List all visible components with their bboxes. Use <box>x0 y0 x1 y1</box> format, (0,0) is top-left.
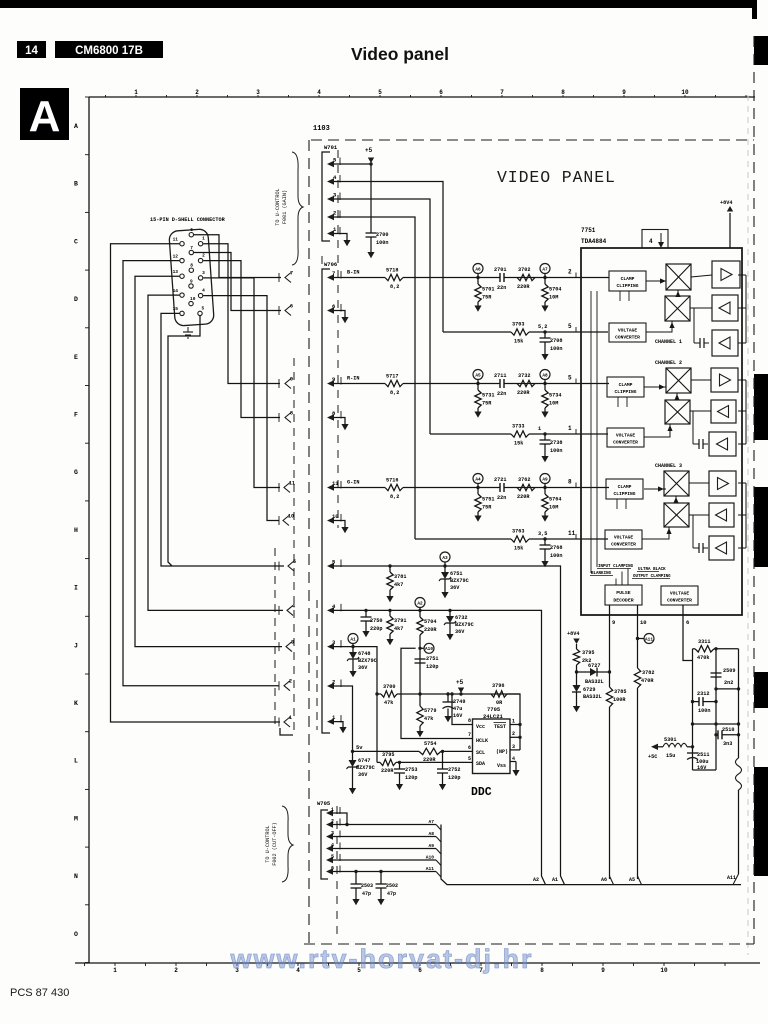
cable wire pin4 to hook10 <box>203 296 279 521</box>
wire W701 pin5 to +5 node <box>334 162 373 165</box>
svg-text:W701: W701 <box>324 144 338 151</box>
svg-text:H: H <box>74 527 78 534</box>
label CHANNEL 3 <box>655 463 682 469</box>
svg-text:36V: 36V <box>455 629 465 635</box>
svg-text:A6: A6 <box>475 267 481 272</box>
svg-text:Video panel: Video panel <box>351 44 449 64</box>
svg-text:75R: 75R <box>482 295 492 301</box>
power +8V4 top right <box>720 200 742 248</box>
svg-text:2738: 2738 <box>550 440 562 446</box>
svg-text:11: 11 <box>568 530 576 537</box>
svg-text:10M: 10M <box>549 401 558 407</box>
capacitor 2700 100n <box>366 232 389 252</box>
svg-text:A11: A11 <box>727 875 736 881</box>
svg-text:3795: 3795 <box>382 752 394 758</box>
24LC21 Vss ground <box>512 762 519 777</box>
svg-text:CLIPPING: CLIPPING <box>613 491 635 497</box>
svg-text:9: 9 <box>601 967 605 974</box>
board outline dashed bottom <box>304 943 754 945</box>
svg-text:6: 6 <box>332 303 335 310</box>
svg-text:75R: 75R <box>482 401 492 407</box>
svg-text:3: 3 <box>256 89 260 96</box>
svg-text:BAS32L: BAS32L <box>585 679 604 685</box>
resistor 3782 470R <box>634 668 654 688</box>
model box CM6800 17B <box>55 41 163 58</box>
svg-text:7: 7 <box>500 89 504 96</box>
wire W701 pin2 to clamp ch3 <box>334 217 415 539</box>
svg-text:2: 2 <box>332 679 335 686</box>
svg-text:CLIPPING: CLIPPING <box>614 389 636 395</box>
svg-text:A3: A3 <box>442 556 448 561</box>
channel R input row (7751 pin5) <box>334 370 609 418</box>
cable wire pin3 to hook11 <box>203 278 280 488</box>
svg-text:15-PIN D-SHELL CONNECTOR: 15-PIN D-SHELL CONNECTOR <box>150 217 226 223</box>
connector W701 pins 5-1 arrows <box>327 157 340 237</box>
svg-text:7: 7 <box>332 270 335 277</box>
svg-text:5: 5 <box>331 854 334 860</box>
svg-text:A11: A11 <box>645 637 653 642</box>
svg-text:TO U-CONTROL: TO U-CONTROL <box>275 188 281 225</box>
connector dashed line c <box>321 256 323 535</box>
svg-text:6748: 6748 <box>358 651 370 657</box>
svg-text:2509: 2509 <box>723 668 735 674</box>
svg-text:5717: 5717 <box>386 374 398 380</box>
svg-text:3795: 3795 <box>582 650 594 656</box>
svg-text:HCLK: HCLK <box>476 738 488 744</box>
svg-text:1: 1 <box>331 807 334 813</box>
svg-text:O: O <box>74 931 78 938</box>
svg-text:22n: 22n <box>497 391 506 397</box>
svg-text:5704: 5704 <box>549 287 561 293</box>
svg-text:A: A <box>74 123 78 130</box>
svg-text:M: M <box>74 815 78 822</box>
right margin black block 2 <box>754 374 768 440</box>
svg-text:220R: 220R <box>517 390 530 396</box>
svg-text:A9: A9 <box>542 477 548 482</box>
svg-text:8: 8 <box>190 263 193 269</box>
svg-text:5: 5 <box>202 305 205 311</box>
svg-text:120p: 120p <box>405 775 417 781</box>
svg-text:220p: 220p <box>370 626 382 632</box>
svg-text:2: 2 <box>289 679 292 685</box>
svg-text:2700: 2700 <box>376 232 388 238</box>
svg-text:8,2: 8,2 <box>390 284 399 290</box>
svg-text:CLAMP: CLAMP <box>618 484 632 490</box>
svg-text:CONVERTER: CONVERTER <box>667 598 692 604</box>
capacitor 2502 47p <box>376 870 399 905</box>
svg-text:11: 11 <box>173 237 179 243</box>
connector W701 label <box>324 144 338 151</box>
clamp line ch3 resistor 3763 <box>415 529 608 568</box>
svg-text:100n: 100n <box>550 346 562 352</box>
svg-text:CLAMP: CLAMP <box>619 382 633 388</box>
svg-text:9: 9 <box>190 278 193 284</box>
wire 3795 to pin5 SDA <box>396 761 467 764</box>
svg-text:3702: 3702 <box>518 267 530 273</box>
svg-text:CHANNEL 1: CHANNEL 1 <box>655 339 682 345</box>
svg-text:5: 5 <box>568 375 572 382</box>
voltage converter blocks x4 <box>605 323 698 605</box>
svg-text:3703: 3703 <box>512 322 524 328</box>
svg-text:3785: 3785 <box>614 689 626 695</box>
svg-text:5754: 5754 <box>424 741 436 747</box>
svg-text:CLAMP: CLAMP <box>621 276 635 282</box>
svg-text:8: 8 <box>561 89 565 96</box>
svg-text:7: 7 <box>468 732 471 738</box>
svg-text:W705: W705 <box>317 800 331 807</box>
svg-text:3: 3 <box>331 831 334 837</box>
svg-text:1: 1 <box>289 715 292 721</box>
svg-text:5: 5 <box>568 323 572 330</box>
junction 5v <box>351 750 354 753</box>
svg-text:4: 4 <box>202 288 205 294</box>
resistor 3795 220R <box>377 752 396 774</box>
svg-text:120p: 120p <box>426 664 438 670</box>
svg-text:3,5: 3,5 <box>538 531 547 537</box>
svg-text:120p: 120p <box>448 775 460 781</box>
svg-text:15k: 15k <box>514 441 523 447</box>
svg-text:9: 9 <box>622 89 626 96</box>
right margin black block 4 <box>754 672 768 708</box>
capacitor 2511 100u 16V <box>687 752 709 771</box>
wire 5754 to pin6 SCL <box>441 750 467 753</box>
wire tap 724 <box>691 722 740 725</box>
node A3 <box>440 552 450 568</box>
multiplier X blocks x6 <box>664 264 691 527</box>
page number box 14 <box>17 41 46 58</box>
svg-text:TDA4884: TDA4884 <box>581 238 607 245</box>
svg-text:A11: A11 <box>426 866 435 872</box>
svg-text:A1: A1 <box>350 637 356 642</box>
amplifier triangle blocks x9 <box>709 261 740 560</box>
zener 6748 <box>347 647 377 678</box>
svg-text:2: 2 <box>202 253 205 259</box>
diode 6729 BAS32L <box>572 672 602 712</box>
svg-text:22n: 22n <box>497 495 506 501</box>
pulse decoder block <box>605 585 642 605</box>
svg-text:B: B <box>74 181 78 188</box>
svg-text:2749: 2749 <box>453 699 465 705</box>
cable wire pin13 to hook3 <box>135 276 282 646</box>
svg-text:2: 2 <box>195 89 199 96</box>
node A2 <box>415 598 425 613</box>
svg-text:220R: 220R <box>517 494 530 500</box>
svg-text:K: K <box>74 700 78 707</box>
svg-text:+5: +5 <box>365 147 373 154</box>
capacitor 2751 120p <box>415 656 439 670</box>
svg-text:1: 1 <box>134 89 138 96</box>
svg-text:4: 4 <box>331 843 334 849</box>
svg-text:11: 11 <box>332 480 339 487</box>
svg-text:7705: 7705 <box>487 706 501 713</box>
capacitor 2750 220p <box>361 609 383 638</box>
svg-text:1: 1 <box>512 719 515 725</box>
capacitor 2312 100n <box>691 691 718 714</box>
svg-text:D: D <box>74 296 78 303</box>
cable wire pin15 to hook5 <box>161 313 284 566</box>
right margin black block 3 <box>754 487 768 567</box>
power +8V4 lower <box>567 631 580 649</box>
page title Video panel <box>351 44 449 64</box>
svg-text:PULSE: PULSE <box>616 590 631 596</box>
svg-text:CONVERTER: CONVERTER <box>615 335 640 341</box>
svg-text:BZX79C: BZX79C <box>358 658 377 664</box>
D-shell connector body <box>169 229 215 326</box>
svg-text:B-IN: B-IN <box>347 270 359 276</box>
svg-text:W706: W706 <box>324 261 337 268</box>
cable wire pin14 to hook4 <box>148 295 283 610</box>
svg-text:2: 2 <box>568 269 572 276</box>
svg-text:15k: 15k <box>514 546 523 552</box>
capacitor 2503 47p <box>351 870 374 905</box>
svg-text:A1: A1 <box>552 877 558 883</box>
svg-text:6: 6 <box>439 89 443 96</box>
clamp line ch2 resistor 3733 <box>430 424 608 463</box>
svg-text:47p: 47p <box>362 891 371 897</box>
bus labels A2 A1 A6 A5 A11 <box>533 875 736 883</box>
svg-text:DECODER: DECODER <box>613 598 633 604</box>
svg-text:47u: 47u <box>453 706 462 712</box>
svg-text:3311: 3311 <box>698 639 710 645</box>
svg-text:2701: 2701 <box>494 267 506 273</box>
svg-text:10: 10 <box>640 619 647 626</box>
capacitor 2749 47u 16V <box>443 692 466 722</box>
svg-text:VOLTAGE: VOLTAGE <box>618 328 638 334</box>
watermark www.rtv-horvat-dj.hr <box>229 944 533 974</box>
svg-text:47k: 47k <box>384 700 393 706</box>
svg-text:F002 (CUT-OFF): F002 (CUT-OFF) <box>272 822 278 866</box>
wire 3796 to TEST pins <box>507 694 522 750</box>
svg-text:BZX79C: BZX79C <box>455 622 474 628</box>
svg-text:3733: 3733 <box>512 424 524 430</box>
svg-text:6: 6 <box>331 866 334 872</box>
svg-text:1103: 1103 <box>313 125 330 133</box>
svg-text:12: 12 <box>173 253 179 259</box>
svg-text:3791: 3791 <box>394 618 406 624</box>
board ref 1103 <box>313 125 330 133</box>
svg-text:6: 6 <box>190 227 193 233</box>
svg-text:3n3: 3n3 <box>723 741 732 747</box>
svg-text:Vcc: Vcc <box>476 724 485 730</box>
svg-text:5731: 5731 <box>482 393 494 399</box>
svg-text:CM6800 17B: CM6800 17B <box>75 45 143 57</box>
svg-text:CONVERTER: CONVERTER <box>613 440 638 446</box>
zener 6747 <box>347 758 375 794</box>
svg-text:A8: A8 <box>542 373 548 378</box>
svg-text:2708: 2708 <box>550 338 562 344</box>
svg-text:F: F <box>74 412 78 419</box>
svg-text:5: 5 <box>378 89 382 96</box>
svg-text:100R: 100R <box>613 697 626 703</box>
cable side hooks with ticks <box>279 271 296 728</box>
label 5v <box>356 744 363 751</box>
svg-text:8: 8 <box>290 411 293 417</box>
drawing border frame with rulers <box>74 89 760 974</box>
board outline dashed top <box>311 139 754 141</box>
wire tap 688 <box>716 687 740 690</box>
svg-text:2753: 2753 <box>405 767 417 773</box>
svg-text:3: 3 <box>291 640 294 646</box>
svg-text:5301: 5301 <box>664 737 676 743</box>
svg-text:2711: 2711 <box>494 373 506 379</box>
svg-text:G-IN: G-IN <box>347 480 359 486</box>
svg-text:F001 (GAIN): F001 (GAIN) <box>282 190 288 224</box>
connector dashed line a <box>274 548 276 730</box>
svg-text:SDA: SDA <box>476 761 485 767</box>
resistor 3795 2k2 <box>573 649 594 672</box>
svg-text:6751: 6751 <box>450 571 462 577</box>
svg-text:E: E <box>74 354 78 361</box>
A11 output line with squiggle <box>733 649 742 885</box>
svg-text:3763: 3763 <box>512 529 524 535</box>
connector W706 pin arrows <box>327 270 341 725</box>
svg-text:8: 8 <box>540 967 544 974</box>
connector W705 label <box>317 800 331 807</box>
label 15-PIN D-SHELL CONNECTOR <box>150 217 226 223</box>
svg-text:6747: 6747 <box>358 758 370 764</box>
cable wire pin5 join <box>168 316 200 566</box>
wire 5v to SCL <box>353 750 420 752</box>
labels input clamping / blanking / ultra black / output clamping <box>590 565 671 585</box>
svg-text:A7: A7 <box>542 267 548 272</box>
svg-text:CLIPPING: CLIPPING <box>616 283 638 289</box>
svg-text:A10: A10 <box>426 855 435 861</box>
cable wire pin1 to hook9 <box>203 244 280 384</box>
svg-text:15: 15 <box>173 306 179 312</box>
svg-text:I: I <box>74 585 78 592</box>
svg-text:10: 10 <box>660 967 668 974</box>
connector W705 bracket <box>321 810 328 879</box>
svg-text:220R: 220R <box>424 627 437 633</box>
svg-text:75R: 75R <box>482 505 492 511</box>
svg-text:2: 2 <box>331 819 334 825</box>
svg-text:3762: 3762 <box>518 477 530 483</box>
svg-text:10: 10 <box>332 513 339 520</box>
W706 pin2 row wire <box>334 686 353 758</box>
svg-text:CHANNEL 2: CHANNEL 2 <box>655 360 682 366</box>
board outline dashed left <box>308 140 310 944</box>
svg-text:2: 2 <box>174 967 178 974</box>
svg-text:2312: 2312 <box>697 691 709 697</box>
svg-text:5734: 5734 <box>549 393 561 399</box>
zener 6732 <box>444 609 474 641</box>
grid label A block <box>20 88 69 141</box>
node A11 circle <box>636 634 654 644</box>
svg-text:A4: A4 <box>475 477 481 482</box>
svg-text:4: 4 <box>512 756 515 762</box>
cable wire pin2 to hook8 <box>203 261 280 418</box>
zener 6751 <box>439 566 469 598</box>
connector W701 bracket <box>322 152 330 241</box>
svg-text:2: 2 <box>512 731 515 737</box>
svg-text:6729: 6729 <box>583 687 595 693</box>
svg-text:+8V4: +8V4 <box>720 200 732 206</box>
power +5 at DDC <box>456 679 464 696</box>
svg-text:2510: 2510 <box>722 727 734 733</box>
svg-text:2768: 2768 <box>550 545 562 551</box>
svg-text:8: 8 <box>568 479 572 486</box>
connector dashed line b <box>293 358 295 733</box>
resistor 3781 4k7 <box>386 564 406 602</box>
svg-text:6: 6 <box>290 304 293 310</box>
svg-text:VOLTAGE: VOLTAGE <box>670 591 690 597</box>
svg-text:3: 3 <box>512 744 515 750</box>
svg-text:L: L <box>74 758 78 765</box>
svg-text:470k: 470k <box>697 655 709 661</box>
wire W701 pin3 to clamp ch2 <box>334 199 430 434</box>
power +5 supply top <box>365 147 374 233</box>
svg-text:6732: 6732 <box>455 615 467 621</box>
svg-text:470R: 470R <box>641 678 654 684</box>
svg-text:36V: 36V <box>358 665 368 671</box>
24LC21 inside labels <box>476 723 508 770</box>
svg-text:5718: 5718 <box>386 268 398 274</box>
svg-text:DDC: DDC <box>471 786 492 799</box>
ground below 2700 <box>367 252 374 258</box>
svg-text:15k: 15k <box>514 339 523 345</box>
wire W701 pin4 to clamp ch1 <box>334 182 443 333</box>
svg-text:2750: 2750 <box>370 618 382 624</box>
svg-text:TO U-CONTROL: TO U-CONTROL <box>265 825 271 862</box>
svg-text:G: G <box>74 469 78 476</box>
svg-text:9: 9 <box>290 377 293 383</box>
svg-text:6: 6 <box>468 745 471 751</box>
svg-text:16V: 16V <box>453 713 463 719</box>
wire W701 pin1 to ground <box>334 234 351 247</box>
svg-text:47k: 47k <box>424 716 433 722</box>
svg-text:A5: A5 <box>629 877 635 883</box>
svg-text:A7: A7 <box>428 819 434 825</box>
svg-text:5: 5 <box>293 559 296 565</box>
right margin black block 5 <box>754 767 768 876</box>
svg-text:TEST: TEST <box>494 724 506 730</box>
node A1 <box>348 634 358 649</box>
svg-text:BZX79C: BZX79C <box>356 765 375 771</box>
svg-text:22n: 22n <box>497 285 506 291</box>
IC pin9 net wire <box>610 605 616 885</box>
svg-text:2511: 2511 <box>697 752 709 758</box>
24LC21 Vcc wire <box>450 692 467 724</box>
connector dashed line e <box>337 150 339 528</box>
capacitor 2753 120p <box>394 762 417 790</box>
capacitor 2752 120p <box>437 751 460 790</box>
svg-text:5751: 5751 <box>482 497 494 503</box>
channel G input row (7751 pin8) <box>334 474 609 522</box>
diode 6727 BAS32L <box>575 663 611 685</box>
svg-text:VOLTAGE: VOLTAGE <box>616 433 636 439</box>
svg-text:4: 4 <box>292 603 295 609</box>
svg-text:PCS 87 430: PCS 87 430 <box>10 987 69 999</box>
svg-text:1: 1 <box>538 426 541 432</box>
svg-text:3781: 3781 <box>394 574 406 580</box>
IC pin10 net wire <box>638 605 647 885</box>
svg-text:A: A <box>29 92 61 141</box>
top pin box 4 <box>642 230 668 249</box>
resistor 3700 47k <box>375 684 520 706</box>
connector W705 pin arrows <box>326 807 340 875</box>
svg-text:220R: 220R <box>381 768 394 774</box>
channel B input row (7751 pin2) <box>334 264 609 312</box>
IC 7705 24LC21 box <box>473 706 511 774</box>
svg-text:+5C: +5C <box>648 754 657 760</box>
footer text PCS 87 430 <box>10 987 69 999</box>
svg-text:C: C <box>74 238 78 245</box>
svg-text:220R: 220R <box>517 284 530 290</box>
svg-text:1: 1 <box>202 236 205 242</box>
right margin black block 1 <box>754 36 768 65</box>
V-IN row wire <box>334 610 546 884</box>
24LC21 HCLK wire <box>401 648 467 738</box>
